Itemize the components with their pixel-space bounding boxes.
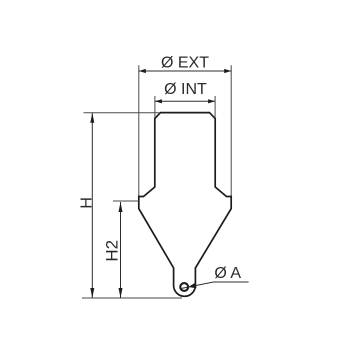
extension line H top (84, 112, 161, 114)
extension line H/H2 bottom (82, 297, 182, 299)
hole A (180, 283, 188, 291)
label H (78, 197, 95, 209)
dimension line INT (155, 99, 215, 103)
svg-text:Ø INT: Ø INT (164, 81, 207, 98)
extension line EXT left (138, 65, 140, 196)
extension line INT right (214, 96, 216, 119)
dimension line H (90, 113, 94, 298)
extension line EXT right (230, 65, 232, 196)
label INT (164, 81, 207, 98)
body outline (139, 113, 231, 297)
dimension line H2 (119, 202, 123, 298)
svg-text:H2: H2 (103, 240, 122, 262)
svg-text:Ø EXT: Ø EXT (161, 54, 209, 71)
svg-text:Ø A: Ø A (214, 265, 241, 282)
leader line A (181, 282, 249, 289)
extension line H2 (113, 200, 139, 202)
extension line INT left (154, 96, 156, 119)
dimension line EXT (139, 69, 231, 73)
label H2 (103, 240, 122, 262)
label EXT (161, 54, 209, 71)
svg-text:H: H (78, 197, 95, 209)
label A (214, 265, 241, 282)
